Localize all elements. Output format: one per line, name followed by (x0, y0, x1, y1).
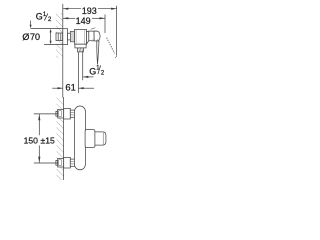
svg-text:70: 70 (30, 32, 40, 42)
svg-text:G: G (36, 12, 43, 22)
svg-text:2: 2 (48, 17, 52, 23)
svg-text:2: 2 (101, 71, 105, 77)
svg-text:193: 193 (82, 6, 97, 16)
svg-text:±15: ±15 (41, 136, 55, 146)
svg-text:G: G (89, 67, 96, 77)
svg-text:150: 150 (24, 136, 39, 146)
svg-text:Ø: Ø (22, 32, 29, 42)
svg-text:61: 61 (65, 82, 75, 93)
svg-text:149: 149 (76, 16, 91, 26)
